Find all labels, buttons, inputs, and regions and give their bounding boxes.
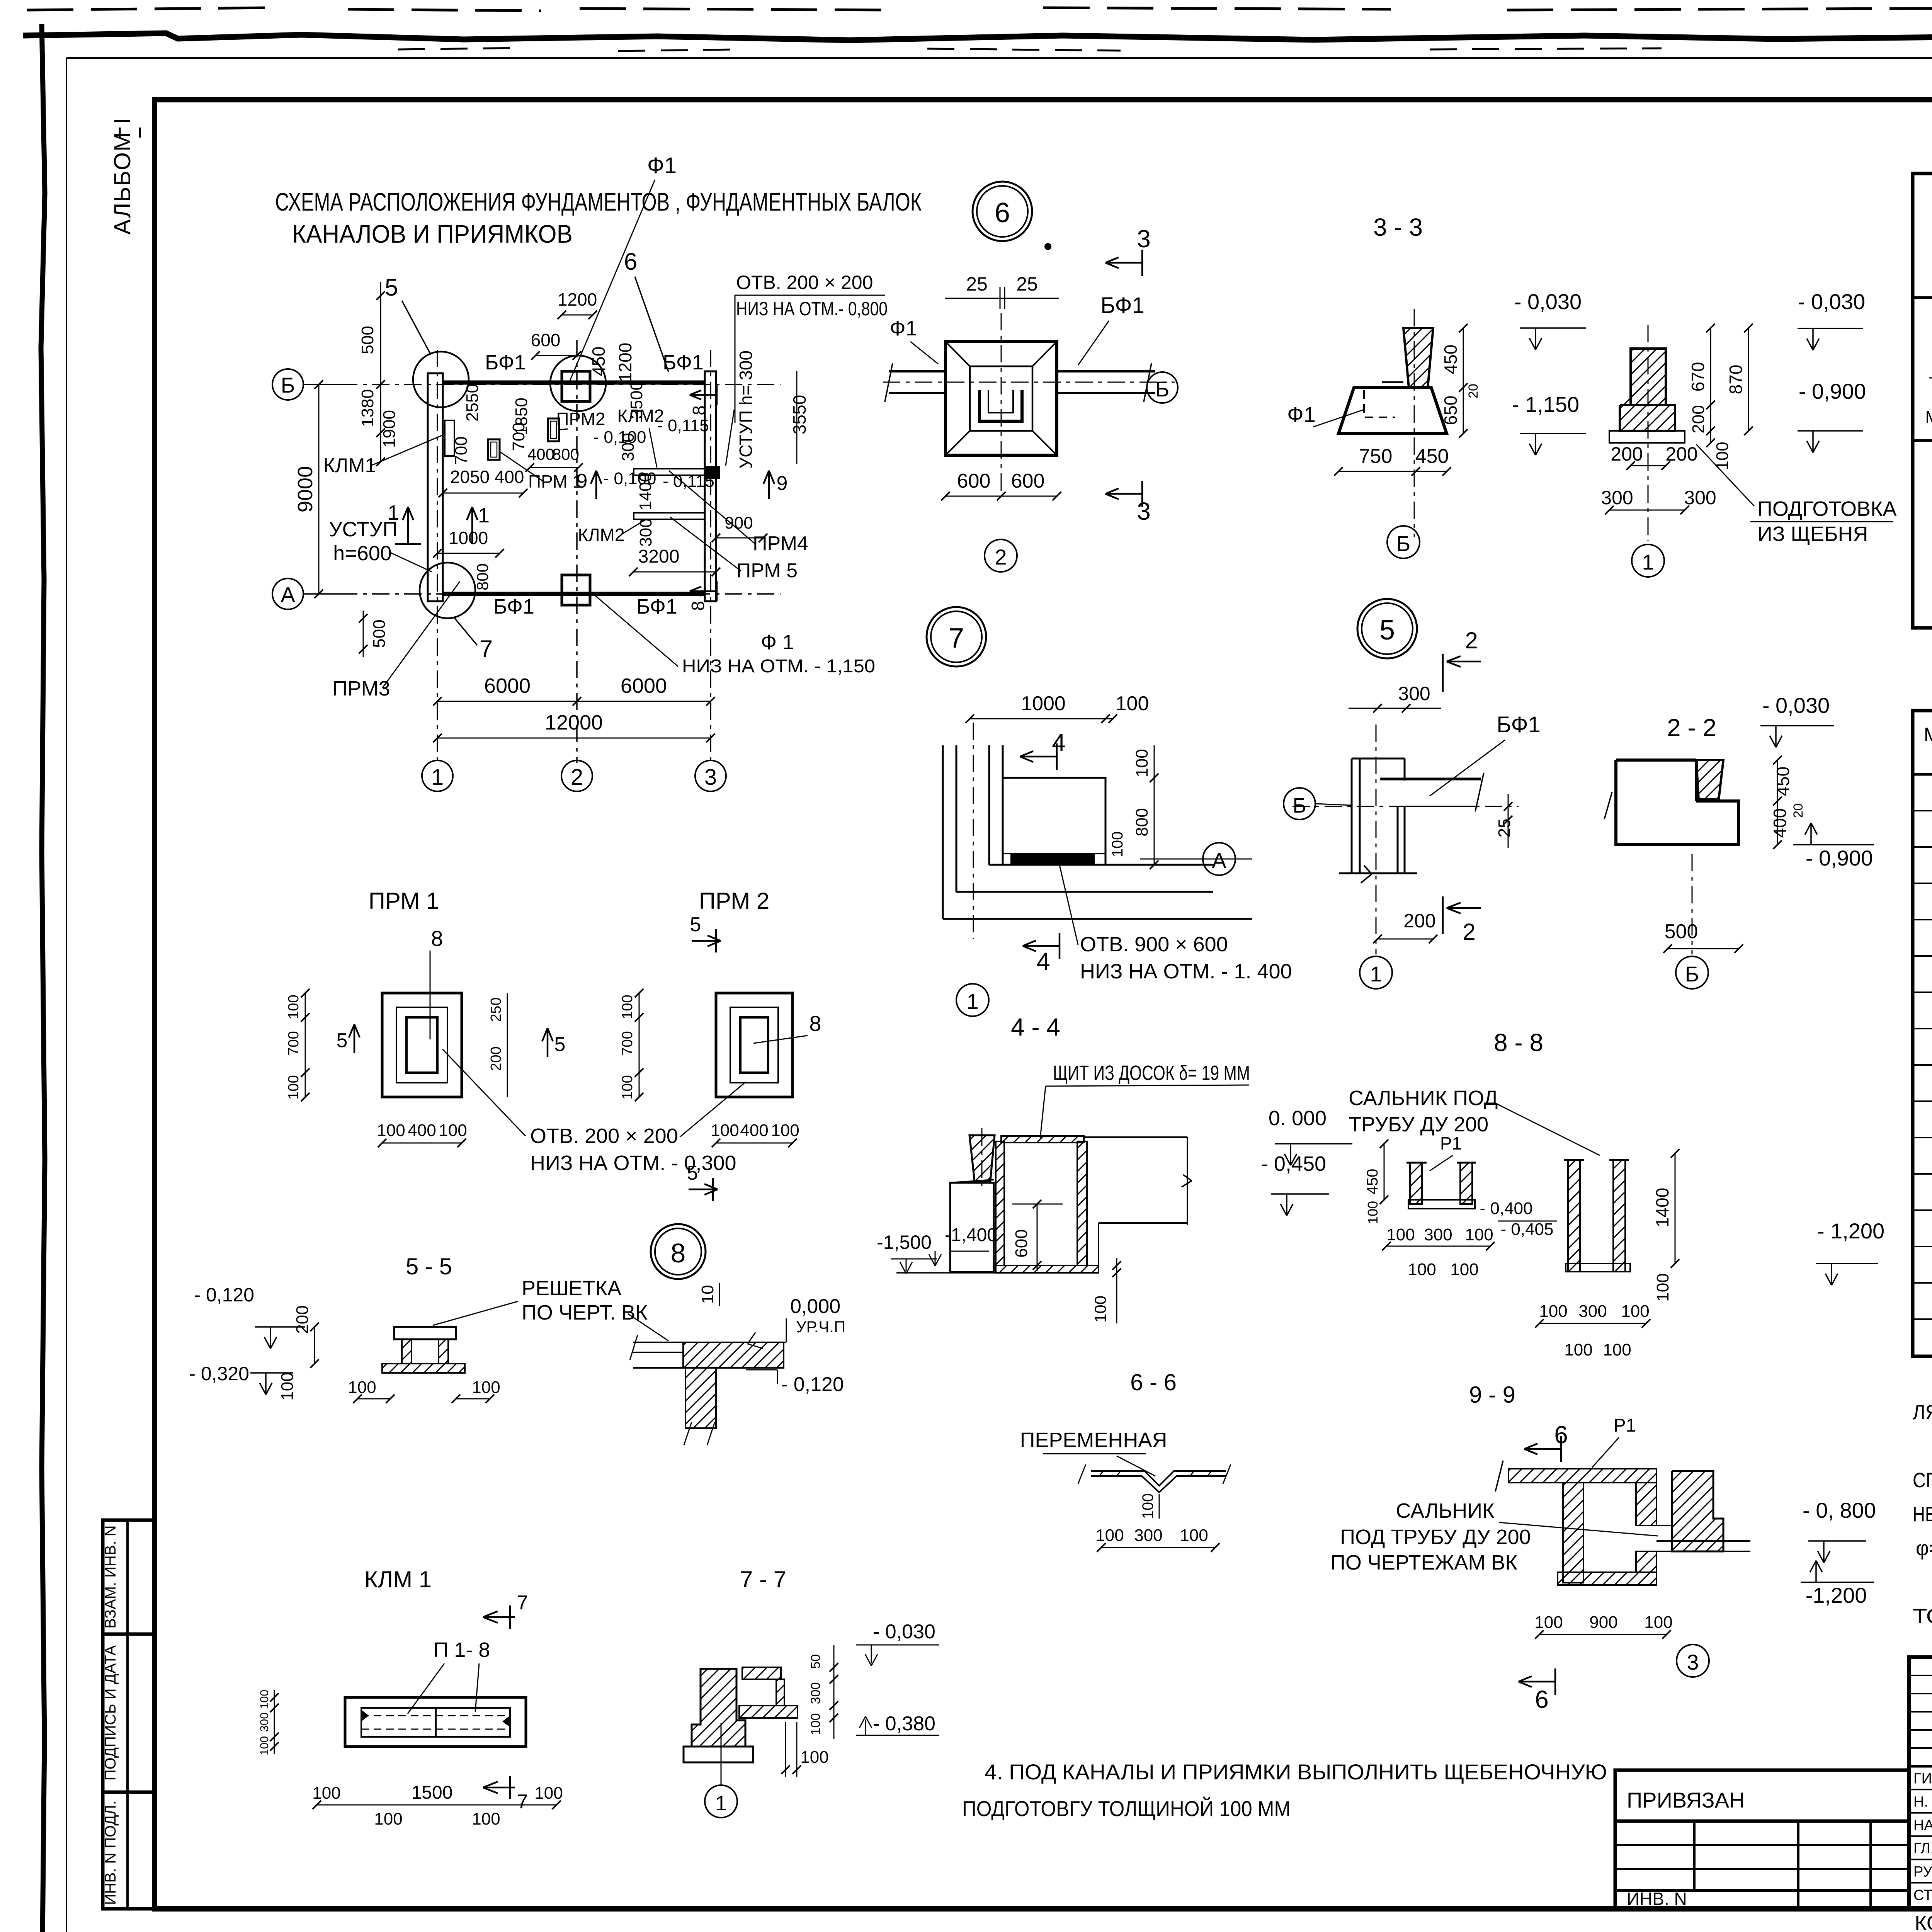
svg-text:700: 700 <box>619 1031 636 1055</box>
section 4-4 bottom slab <box>996 1265 1099 1273</box>
svg-text:100: 100 <box>1408 1260 1436 1279</box>
svg-text:ГИП: ГИП <box>1913 1770 1932 1787</box>
svg-text:650: 650 <box>1440 396 1461 425</box>
svg-text:400: 400 <box>495 467 524 487</box>
dim line 12000 <box>437 738 711 739</box>
node 2 dims 25 25 <box>945 298 1059 299</box>
scan edge top dashes row <box>27 8 1932 11</box>
svg-text:1400: 1400 <box>636 473 655 510</box>
section 9-9 circle 3 <box>1677 1645 1709 1677</box>
plan top dim 600 <box>536 355 577 356</box>
node 2 beams <box>889 370 946 372</box>
svg-text:600: 600 <box>531 330 561 350</box>
svg-text:- 0,900: - 0,900 <box>1799 379 1866 403</box>
svg-text:100: 100 <box>808 1713 823 1735</box>
svg-text:400: 400 <box>740 1121 768 1140</box>
svg-text:500: 500 <box>1665 920 1698 943</box>
svg-text:100: 100 <box>258 1690 271 1709</box>
svg-text:- 0,400: - 0,400 <box>1480 1199 1533 1218</box>
section 2-2 axis <box>1692 854 1693 954</box>
section 8-8 right pit <box>1568 1160 1580 1272</box>
svg-text:2050: 2050 <box>450 467 490 487</box>
svg-text:КЛМ 1: КЛМ 1 <box>364 1566 432 1592</box>
svg-text:ТОЛЩИНОЙ 100 ММ: ТОЛЩИНОЙ 100 ММ <box>1913 1604 1932 1628</box>
detail 8 floor section <box>633 1342 683 1343</box>
svg-text:25: 25 <box>1016 273 1038 295</box>
svg-text:Б: Б <box>1293 794 1306 817</box>
svg-text:100: 100 <box>1603 1340 1631 1359</box>
svg-text:- 1,150: - 1,150 <box>1512 392 1579 417</box>
channel Klm2 strips <box>634 469 705 475</box>
section 7-7 channel right wall <box>776 1679 784 1706</box>
svg-text:НАЧ. ОТД.: НАЧ. ОТД. <box>1913 1817 1932 1833</box>
svg-text:РЕШЕТКА: РЕШЕТКА <box>522 1277 621 1300</box>
svg-text:12000: 12000 <box>545 711 603 734</box>
title block frame <box>1909 1657 1932 1909</box>
svg-text:Ф 1: Ф 1 <box>761 631 794 654</box>
svg-text:25: 25 <box>1495 819 1514 838</box>
svg-text:ОТВ. 200 × 200: ОТВ. 200 × 200 <box>530 1124 678 1148</box>
svg-text:200: 200 <box>488 1046 504 1071</box>
svg-text:3: 3 <box>704 765 717 790</box>
svg-text:φ=0,49 РАД. (28°), Сᴺ=2кПа (0,: φ=0,49 РАД. (28°), Сᴺ=2кПа (0,02 кгс/см²… <box>1916 1537 1932 1560</box>
svg-text:300: 300 <box>1684 487 1716 509</box>
left monolith wall <box>428 373 443 601</box>
section 2-2 dims <box>1760 725 1834 726</box>
load table grid <box>1913 173 1932 628</box>
svg-text:- 0,405: - 0,405 <box>1501 1220 1554 1239</box>
axis circle 3 <box>695 760 726 791</box>
section 7-7 base plate <box>684 1747 753 1762</box>
detail 7 corner plan <box>942 745 944 919</box>
svg-text:7: 7 <box>480 636 493 662</box>
svg-text:2: 2 <box>1463 919 1475 945</box>
svg-text:400: 400 <box>527 445 554 463</box>
svg-text:ЩИТ ИЗ ДОСОК δ= 19 ММ: ЩИТ ИЗ ДОСОК δ= 19 ММ <box>1053 1061 1250 1085</box>
privyazan table <box>1615 1770 1909 1909</box>
section 4-4 left wall <box>996 1141 1004 1265</box>
svg-text:- 0,115: - 0,115 <box>657 416 709 435</box>
svg-text:700: 700 <box>452 436 471 464</box>
svg-text:100: 100 <box>619 995 636 1019</box>
detail 7 black hole strip <box>1010 854 1095 865</box>
section mark 8 arrows <box>690 394 717 396</box>
svg-text:20: 20 <box>1466 384 1481 398</box>
svg-text:3: 3 <box>1137 225 1151 253</box>
svg-text:СХЕМА РАСПОЛОЖЕНИЯ ФУНДАМЕНТ: СХЕМА РАСПОЛОЖЕНИЯ ФУНДАМЕНТОВ , ФУНДАМЕ… <box>275 187 922 216</box>
svg-text:1400: 1400 <box>1652 1188 1672 1227</box>
svg-text:100: 100 <box>1564 1340 1592 1359</box>
section 2-2 circle B <box>1676 956 1708 989</box>
svg-text:- 0,900: - 0,900 <box>1806 846 1873 870</box>
svg-text:- 0,120: - 0,120 <box>194 1284 254 1306</box>
foundation F1 at axis 2/B <box>562 371 590 401</box>
node 2 section marks 3 <box>1105 262 1142 264</box>
Prm2 section marks 5 <box>715 929 717 952</box>
svg-text:- 1,200: - 1,200 <box>1817 1219 1884 1243</box>
section 3-3 dims <box>1520 327 1586 329</box>
svg-text:А: А <box>1212 848 1226 872</box>
load table axis scheme row1 <box>1929 378 1932 379</box>
Prm1 section marks 5 <box>354 1024 355 1053</box>
svg-text:500: 500 <box>370 619 389 648</box>
svg-text:КЛМ2: КЛМ2 <box>578 525 625 545</box>
svg-text:7: 7 <box>949 623 964 654</box>
svg-text:1: 1 <box>478 504 490 527</box>
node 2 dim 600 600 <box>946 496 1057 497</box>
svg-text:100: 100 <box>1365 1201 1381 1224</box>
svg-text:400: 400 <box>408 1121 436 1140</box>
detail 7 dims <box>970 718 1113 719</box>
svg-text:500: 500 <box>358 326 377 354</box>
svg-text:ИЗ ЩЕБНЯ: ИЗ ЩЕБНЯ <box>1757 522 1868 546</box>
svg-text:ПРМ 1: ПРМ 1 <box>369 888 439 914</box>
axis1 detail circle 1 <box>1632 544 1664 577</box>
svg-text:НИЗ НА ОТМ. - 1,150: НИЗ НА ОТМ. - 1,150 <box>682 656 875 677</box>
svg-text:П 1- 8: П 1- 8 <box>434 1638 490 1662</box>
svg-text:4: 4 <box>1036 947 1050 975</box>
svg-text:- 0,115: - 0,115 <box>663 472 714 491</box>
svg-text:САЛЬНИК: САЛЬНИК <box>1396 1499 1495 1522</box>
top foundation beam BF1 <box>443 381 705 385</box>
svg-text:400: 400 <box>1770 808 1790 838</box>
svg-text:6 - 6: 6 - 6 <box>1130 1369 1177 1395</box>
svg-text:7: 7 <box>517 1592 528 1614</box>
svg-text:2550: 2550 <box>463 384 482 422</box>
svg-text:600: 600 <box>1012 1229 1031 1257</box>
svg-text:100: 100 <box>348 1378 376 1397</box>
svg-text:750: 750 <box>1359 445 1393 468</box>
svg-text:100: 100 <box>1644 1613 1672 1632</box>
svg-text:ПО ЧЕРТ. ВК: ПО ЧЕРТ. ВК <box>522 1301 648 1324</box>
svg-text:450: 450 <box>1440 345 1461 374</box>
svg-text:1200: 1200 <box>615 343 635 382</box>
svg-text:1: 1 <box>1370 962 1382 986</box>
dim line 6000+6000 <box>437 701 711 702</box>
svg-text:ГЛ. СПЕЦ.: ГЛ. СПЕЦ. <box>1913 1840 1932 1857</box>
svg-text:250: 250 <box>488 997 504 1022</box>
svg-text:3 - 3: 3 - 3 <box>1373 213 1423 241</box>
left stamp boxes <box>103 1520 155 1909</box>
section 9-9 top slab <box>1509 1469 1656 1483</box>
svg-text:7: 7 <box>517 1791 528 1813</box>
svg-text:НИЗ НА ОТМ. - 1. 400: НИЗ НА ОТМ. - 1. 400 <box>1080 960 1292 983</box>
svg-text:1380: 1380 <box>358 389 377 427</box>
svg-text:ИНВ. N: ИНВ. N <box>1627 1889 1687 1909</box>
section 4-4 right wall <box>1077 1141 1087 1265</box>
svg-text:Ф1: Ф1 <box>889 317 917 340</box>
scan edge left band <box>41 24 48 1932</box>
svg-text:Ф1: Ф1 <box>1287 402 1316 427</box>
svg-text:5 - 5: 5 - 5 <box>406 1253 452 1279</box>
svg-text:100: 100 <box>1621 1302 1649 1321</box>
svg-text:100: 100 <box>1180 1526 1208 1545</box>
svg-text:БФ1: БФ1 <box>485 351 526 374</box>
svg-text:ОТВ. 200 × 200: ОТВ. 200 × 200 <box>736 272 873 293</box>
detail 7 axes <box>973 723 974 939</box>
svg-text:-1,400: -1,400 <box>945 1225 997 1245</box>
svg-text:600: 600 <box>957 470 991 492</box>
detail 7 circle 1 <box>956 984 989 1016</box>
svg-text:МАРКА,: МАРКА, <box>1924 724 1932 745</box>
svg-text:1: 1 <box>715 1792 727 1815</box>
svg-text:Б: Б <box>1155 377 1170 401</box>
svg-text:3550: 3550 <box>789 395 810 434</box>
svg-text:7 - 7: 7 - 7 <box>740 1566 786 1592</box>
svg-text:ИНВ. N ПОДЛ.: ИНВ. N ПОДЛ. <box>102 1801 119 1905</box>
svg-text:2 - 2: 2 - 2 <box>1667 714 1716 742</box>
section 7-7 channel bottom plate <box>739 1706 798 1718</box>
node 2 axis circle B <box>1147 372 1178 403</box>
svg-text:ПРМ3: ПРМ3 <box>332 677 390 700</box>
svg-text:СТ. ИНЖ.: СТ. ИНЖ. <box>1913 1887 1932 1903</box>
svg-text:100: 100 <box>312 1784 340 1803</box>
detail 5 section marks 2 <box>1442 654 1444 692</box>
svg-text:1500: 1500 <box>412 1782 453 1803</box>
svg-text:3200: 3200 <box>638 546 680 567</box>
svg-text:- 0,380: - 0,380 <box>873 1713 935 1735</box>
detail 5 axis circle B <box>1284 788 1315 820</box>
plan top dim 1200 <box>562 315 593 316</box>
svg-text:100: 100 <box>1095 1526 1124 1545</box>
svg-text:КОПИРОВАЛ БАБИНА: КОПИРОВАЛ БАБИНА <box>1915 1912 1932 1932</box>
svg-text:1: 1 <box>966 989 978 1014</box>
svg-text:БФ1: БФ1 <box>1100 293 1145 318</box>
section 9-9 dims <box>1539 1634 1667 1635</box>
svg-text:- 0,030: - 0,030 <box>873 1621 935 1643</box>
pit Prm1 <box>488 439 500 460</box>
svg-text:- 0,030: - 0,030 <box>1514 289 1582 314</box>
svg-text:8: 8 <box>689 405 709 415</box>
axis circle 2 <box>561 760 592 791</box>
svg-text:ПРМ 2: ПРМ 2 <box>699 888 770 914</box>
svg-text:ОТВ. 900 × 600: ОТВ. 900 × 600 <box>1080 933 1228 956</box>
svg-text:100: 100 <box>472 1378 500 1397</box>
section 4-4 ground line <box>896 1272 1001 1274</box>
svg-text:20: 20 <box>1791 803 1806 818</box>
svg-text:СПОКОЙНЫМ РЕЛЬЕФОМ ПРИ ОТСУ: СПОКОЙНЫМ РЕЛЬЕФОМ ПРИ ОТСУТСТВИИ ГРУНТО… <box>1913 1468 1932 1492</box>
svg-text:300: 300 <box>1424 1225 1452 1244</box>
svg-text:100: 100 <box>1116 692 1149 715</box>
svg-text:100: 100 <box>439 1121 467 1140</box>
svg-text:300: 300 <box>619 433 638 461</box>
section 3-3 axis circle B <box>1387 526 1420 558</box>
svg-text:100: 100 <box>534 1784 563 1803</box>
dim chain 500-1380-1900 vertical <box>380 282 381 462</box>
node 2 axes <box>883 382 1175 383</box>
svg-text:100: 100 <box>800 1748 828 1767</box>
svg-text:100: 100 <box>258 1736 271 1755</box>
svg-text:450: 450 <box>1364 1169 1381 1195</box>
svg-text:4 - 4: 4 - 4 <box>1011 1013 1060 1041</box>
detail Klm1 plan <box>345 1697 526 1747</box>
svg-text:300: 300 <box>1601 487 1633 509</box>
Klm1 section marks 7 <box>509 1605 511 1629</box>
svg-text:УР.Ч.П: УР.Ч.П <box>796 1318 845 1336</box>
svg-text:100: 100 <box>1450 1260 1478 1279</box>
svg-text:670: 670 <box>1688 362 1708 392</box>
svg-text:Р1: Р1 <box>1440 1133 1462 1153</box>
svg-text:100: 100 <box>619 1075 636 1099</box>
svg-text:5: 5 <box>337 1029 348 1052</box>
svg-text:870: 870 <box>1726 365 1746 395</box>
scan edge top band <box>23 33 1932 40</box>
svg-text:6: 6 <box>1535 1685 1549 1713</box>
svg-text:10: 10 <box>698 1285 717 1304</box>
svg-text:700: 700 <box>509 422 528 451</box>
svg-text:1000: 1000 <box>1021 692 1066 715</box>
axis line 1 <box>437 350 438 763</box>
svg-text:200: 200 <box>293 1305 312 1333</box>
section 8-8 left pit <box>1410 1163 1422 1204</box>
section 3-3 foundation F1 trapezoid <box>1338 388 1447 434</box>
svg-text:800: 800 <box>1133 808 1151 836</box>
pit Prm2 <box>548 418 559 441</box>
section 2-2 body <box>1616 759 1696 762</box>
svg-text:1000: 1000 <box>449 528 488 548</box>
svg-text:300: 300 <box>258 1713 271 1732</box>
svg-text:8 - 8: 8 - 8 <box>1494 1029 1543 1056</box>
svg-text:- 0,320: - 0,320 <box>189 1363 249 1384</box>
svg-text:1: 1 <box>1642 550 1654 574</box>
detail Prm2 plan <box>716 993 793 1097</box>
svg-text:450: 450 <box>588 347 609 376</box>
svg-text:ЛЯТОРА, ЧТО СООТВЕТСТВУЕТ А: ЛЯТОРА, ЧТО СООТВЕТСТВУЕТ АБСОЛЮТНОЙ ОТМ… <box>1913 1400 1932 1424</box>
section 4-4 column trapezoid <box>969 1135 995 1181</box>
svg-text:25: 25 <box>966 273 988 295</box>
section 3-3 axis <box>1414 309 1415 537</box>
svg-text:200: 200 <box>1689 405 1708 433</box>
svg-text:8: 8 <box>688 601 708 611</box>
svg-text:9: 9 <box>577 470 588 492</box>
svg-text:8: 8 <box>671 1238 686 1268</box>
svg-text:1: 1 <box>431 765 444 790</box>
svg-text:800: 800 <box>473 563 492 590</box>
axis line 3 <box>710 350 711 763</box>
svg-text:ПО ЧЕРТЕЖАМ ВК: ПО ЧЕРТЕЖАМ ВК <box>1330 1551 1517 1574</box>
svg-text:ПОДПИСЬ И ДАТА: ПОДПИСЬ И ДАТА <box>102 1645 119 1781</box>
svg-text:КЛМ1: КЛМ1 <box>323 454 376 477</box>
svg-text:Мх: Мх <box>1925 408 1932 427</box>
svg-text:h=600: h=600 <box>333 542 392 565</box>
right monolith wall <box>705 371 716 601</box>
svg-text:1200: 1200 <box>558 289 597 310</box>
svg-text:200: 200 <box>1665 443 1697 465</box>
svg-text:НЕПУЧИНИСТЫЕ, НЕПРОСАДОЧНЫЕ С: НЕПУЧИНИСТЫЕ, НЕПРОСАДОЧНЫЕ СО СЛЕДУЮЩИМ… <box>1913 1503 1932 1526</box>
svg-text:300: 300 <box>1398 683 1430 704</box>
section mark 9 arrows <box>595 471 597 499</box>
svg-text:6000: 6000 <box>621 674 667 697</box>
svg-text:800: 800 <box>552 445 579 463</box>
detail 7 axis circle A <box>1203 843 1235 875</box>
svg-text:9 - 9: 9 - 9 <box>1469 1382 1515 1408</box>
svg-text:ПОДГОТОВГУ ТОЛЩИНОЙ 100 ММ: ПОДГОТОВГУ ТОЛЩИНОЙ 100 ММ <box>962 1796 1291 1821</box>
section 9-9 right column <box>1672 1471 1723 1551</box>
svg-text:ПРМ4: ПРМ4 <box>753 532 808 555</box>
svg-text:Б: Б <box>1396 531 1411 556</box>
channel Klm1 dashed <box>445 420 454 456</box>
svg-text:ПРМ 1: ПРМ 1 <box>528 471 582 492</box>
svg-text:300: 300 <box>1578 1302 1607 1321</box>
svg-text:6: 6 <box>995 197 1010 228</box>
svg-text:- 0,030: - 0,030 <box>1798 289 1865 314</box>
section 6-6 slab <box>1091 1471 1226 1486</box>
svg-text:3: 3 <box>1687 1650 1699 1674</box>
callout circle 7 on plan <box>420 563 475 618</box>
svg-text:-1,500: -1,500 <box>877 1231 932 1253</box>
svg-text:БФ1: БФ1 <box>1497 712 1541 737</box>
svg-text:НИЗ НА ОТМ. - 0,300: НИЗ НА ОТМ. - 0,300 <box>530 1151 736 1175</box>
svg-text:- 0,030: - 0,030 <box>1762 693 1830 718</box>
svg-text:РУК. ГР.: РУК. ГР. <box>1913 1864 1932 1880</box>
section 9-9 section marks 6 <box>1524 1448 1561 1450</box>
svg-text:100: 100 <box>1465 1225 1493 1244</box>
svg-text:БФ1: БФ1 <box>493 595 534 618</box>
svg-text:6: 6 <box>624 248 637 275</box>
svg-text:САЛЬНИК ПОД: САЛЬНИК ПОД <box>1349 1087 1498 1110</box>
svg-text:300: 300 <box>808 1682 823 1704</box>
svg-text:100: 100 <box>1386 1225 1415 1244</box>
section mark 1 arrows <box>407 507 409 544</box>
svg-text:5: 5 <box>554 1033 566 1056</box>
svg-text:АЛЬБОМ I: АЛЬБОМ I <box>109 117 135 235</box>
section 4-4 floor lines right <box>1084 1136 1187 1138</box>
svg-text:- 0,450: - 0,450 <box>1261 1152 1326 1175</box>
svg-text:450: 450 <box>1415 445 1449 468</box>
svg-text:2: 2 <box>1465 628 1478 653</box>
svg-text:450: 450 <box>1773 767 1793 796</box>
section 4-4 left block <box>950 1183 994 1272</box>
svg-text:ПРМ 5: ПРМ 5 <box>736 560 798 582</box>
svg-text:100: 100 <box>278 1372 297 1400</box>
svg-text:9: 9 <box>777 472 788 495</box>
svg-text:ПРИВЯЗАН: ПРИВЯЗАН <box>1627 1788 1745 1812</box>
axis1 detail dims <box>1798 328 1863 329</box>
svg-text:2: 2 <box>995 545 1007 569</box>
svg-text:0. 000: 0. 000 <box>1269 1107 1327 1130</box>
detail callout circle 6 large <box>973 182 1032 241</box>
node 2 axis circle 2 below <box>985 539 1017 572</box>
svg-text:БФ1: БФ1 <box>663 351 704 374</box>
spec table grid <box>1913 711 1932 1356</box>
svg-text:8: 8 <box>809 1011 821 1036</box>
svg-text:100: 100 <box>1653 1273 1672 1301</box>
svg-text:- 0, 800: - 0, 800 <box>1803 1498 1876 1522</box>
detail 7 section marks 4 <box>1020 756 1057 758</box>
section 5-5 drawing <box>394 1327 456 1339</box>
svg-text:300: 300 <box>636 518 655 546</box>
svg-text:9000: 9000 <box>294 466 317 512</box>
svg-text:50: 50 <box>808 1654 823 1669</box>
section 3-3 column hatched <box>1403 328 1433 388</box>
svg-text:5: 5 <box>690 913 701 936</box>
axis line 2 <box>576 340 578 763</box>
svg-text:100: 100 <box>286 1075 302 1099</box>
svg-text:100: 100 <box>377 1121 405 1140</box>
svg-text:100: 100 <box>286 995 302 1019</box>
svg-text:600: 600 <box>1011 470 1045 492</box>
svg-text:100: 100 <box>472 1810 500 1828</box>
svg-text:КАНАЛОВ И ПРИЯМКОВ: КАНАЛОВ И ПРИЯМКОВ <box>292 219 573 248</box>
svg-text:3500: 3500 <box>627 381 646 419</box>
svg-text:900: 900 <box>1589 1613 1617 1632</box>
svg-text:Ф1: Ф1 <box>647 153 677 178</box>
svg-text:200: 200 <box>1403 910 1435 932</box>
svg-text:- 0,120: - 0,120 <box>781 1373 844 1396</box>
svg-text:-1,200: -1,200 <box>1806 1583 1867 1607</box>
section 4-4 formwork top strip <box>1001 1136 1084 1143</box>
svg-text:2: 2 <box>571 765 583 790</box>
